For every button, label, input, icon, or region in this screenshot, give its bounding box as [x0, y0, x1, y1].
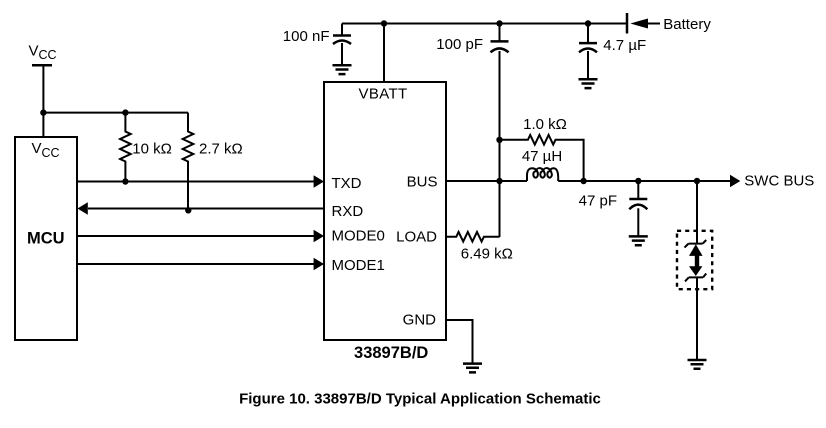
svg-text:47 µH: 47 µH — [522, 148, 562, 165]
svg-text:RXD: RXD — [332, 203, 364, 220]
svg-text:Battery: Battery — [663, 16, 711, 33]
svg-text:33897B/D: 33897B/D — [354, 344, 428, 362]
svg-text:VBATT: VBATT — [359, 85, 408, 102]
svg-text:4.7 µF: 4.7 µF — [603, 37, 646, 54]
svg-text:1.0 kΩ: 1.0 kΩ — [523, 116, 567, 133]
svg-text:GND: GND — [403, 311, 437, 328]
svg-text:47 pF: 47 pF — [579, 193, 617, 210]
svg-text:LOAD: LOAD — [396, 229, 437, 246]
svg-text:MODE1: MODE1 — [332, 257, 385, 274]
svg-text:VCC: VCC — [32, 140, 60, 160]
svg-text:TXD: TXD — [332, 175, 362, 192]
svg-text:100 pF: 100 pF — [436, 36, 483, 53]
svg-text:Figure 10. 33897B/D Typical Ap: Figure 10. 33897B/D Typical Application … — [239, 391, 601, 408]
svg-text:2.7 kΩ: 2.7 kΩ — [199, 141, 243, 158]
svg-text:10 kΩ: 10 kΩ — [132, 141, 172, 158]
svg-text:BUS: BUS — [407, 174, 438, 191]
svg-text:MCU: MCU — [27, 230, 65, 248]
svg-text:100 nF: 100 nF — [283, 28, 330, 45]
svg-text:MODE0: MODE0 — [332, 228, 385, 245]
svg-text:6.49 kΩ: 6.49 kΩ — [461, 246, 513, 263]
svg-text:VCC: VCC — [29, 42, 57, 62]
svg-text:SWC BUS: SWC BUS — [744, 173, 814, 190]
